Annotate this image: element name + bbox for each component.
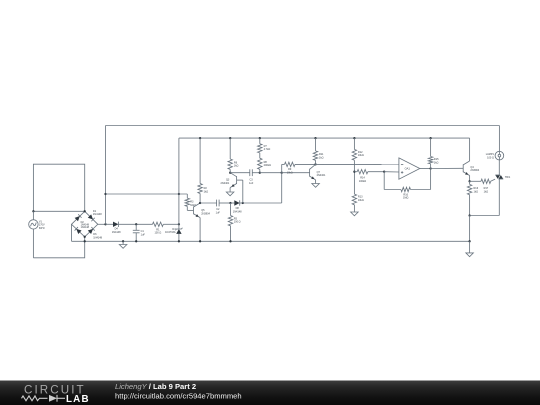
svg-text:100kΩ: 100kΩ [359,180,366,183]
resistor R17 [481,179,491,183]
resistor R16 [467,184,471,194]
node zener tap y=194 [178,193,180,195]
wire: Q3 base drop [242,180,244,203]
svg-text:10kΩ: 10kΩ [358,154,364,157]
resistor R11 [313,151,317,160]
wire: R9 to Q7 collector node [295,163,316,165]
wire: V1 loop rectangle [33,164,84,211]
wire: cross vertical [281,164,283,203]
resistor R7 [258,144,262,153]
wire: R3 to Q5 base [186,206,188,210]
svg-text:200kΩ: 200kΩ [264,164,271,167]
svg-text:TRI1: TRI1 [505,176,511,179]
node bridge bottom vertex [84,236,86,238]
svg-text:1MΩ: 1MΩ [403,197,408,200]
footer bar [0,381,540,405]
node R7 rail2 junction [259,137,261,139]
node D8 cathode / Q3 base drop [242,202,244,204]
svg-text:100 Ω: 100 Ω [155,232,162,235]
diode D8 [231,202,235,204]
capacitor C2 [200,202,217,204]
lamp LAMP1 [495,151,504,160]
svg-text:OA1: OA1 [405,167,411,171]
wire: emitter node to R16 [469,181,471,184]
node Q5 emitter ground [199,240,201,242]
transistor Q7 [309,169,311,177]
svg-text:4.7kΩ: 4.7kΩ [264,148,271,151]
resistor R14 feedback [401,187,411,191]
wire: emitter node to R17 [470,180,481,182]
svg-text:2N4401: 2N4401 [317,174,326,177]
op-amp OA1 [399,158,420,179]
svg-text:1N4148: 1N4148 [233,210,242,213]
node lower right [468,214,470,216]
wire: inverting input line [316,163,399,165]
resistor R12 [352,149,356,160]
wire: D8 line to cross column [243,202,282,204]
node zener bottom [178,240,180,242]
wire: feedback left and up [384,189,401,191]
wire: rail1 right drop to lamp [498,126,500,152]
wire: rail2 to R11 [315,138,317,151]
zener diode D7 [176,229,181,234]
wire: Q4 collector to rail2 [469,138,471,161]
node Q7 collector [314,163,316,165]
wire: plus input stub [384,171,399,173]
wire: zener column [178,138,180,229]
node cross junction [281,172,283,174]
resistor R13 horizontal [354,171,357,173]
node C1 bottom [135,240,137,242]
wire: top rail [106,125,500,127]
ground symbol Q3 emitter [229,188,231,192]
diode D2 (bridge top-left) [75,216,80,221]
resistor R9 [285,162,296,166]
ground symbol R13 [353,205,355,212]
node ground rail end [468,240,470,242]
svg-text:1kΩ: 1kΩ [484,191,489,194]
wire: feedback down [430,169,432,190]
resistor R13 lower [352,194,356,205]
wire: bridge right vertex to DC node [98,223,106,225]
wire: R5 to ground rail [230,226,232,242]
wire: triac bottom loop [498,179,500,216]
svg-text:2N3904: 2N3904 [470,169,479,172]
node R5 ground [229,240,231,242]
wire: triac top to lamp [498,160,500,175]
wire: y=194 tap line [106,193,188,195]
wire: rail2 to R15 [430,138,432,156]
node R2 rail2 junction [199,137,201,139]
wire: Q3 node to C3 [230,172,250,174]
diode D3 (bridge bottom-left) [76,229,81,234]
wire: R16 to lower node [469,195,471,216]
wire: R11 to collector node [315,160,317,164]
svg-text:10kΩ: 10kΩ [358,199,364,202]
svg-text:LAB: LAB [66,394,90,405]
svg-text:1N4148: 1N4148 [93,237,102,240]
diode D4 [113,222,118,227]
svg-text:100 Ω: 100 Ω [487,156,494,159]
svg-text:LichengY / Lab 9 Part 2: LichengY / Lab 9 Part 2 [115,382,196,391]
diode D6 (bridge bottom-right) [88,229,93,234]
svg-text:1N4148: 1N4148 [112,231,121,234]
wire: output to Q4 base [431,167,464,169]
node DC+ corner [104,223,106,225]
logo resistor glyph [22,395,66,402]
svg-text:1N4148: 1N4148 [81,226,90,229]
wire: node row to cross node [260,172,282,174]
node junction at V1 top [32,210,34,212]
svg-text:http://circuitlab.com/cr594e7b: http://circuitlab.com/cr594e7bmmmeh [115,392,242,401]
node bridge top vertex [84,210,86,212]
node tap at y=194 [104,193,106,195]
wire: R15 to output node [430,164,432,169]
node output [429,167,431,169]
svg-text:1uF: 1uF [141,233,146,236]
resistor R8 [258,158,262,169]
svg-text:2N4401: 2N4401 [221,182,230,185]
wire: cross to Q7 base [282,172,310,174]
resistor R15 [428,157,432,164]
wire: rail2 to R6 [229,138,231,159]
svg-text:1N4733A: 1N4733A [165,231,176,234]
node divider tap [353,171,355,173]
triac TRI1 [495,175,500,179]
resistor R3 [185,198,189,206]
node R5 top [229,202,231,204]
ground symbol near C1 [122,240,124,242]
transistor Q4 [462,164,464,172]
node R8 bottom [259,172,261,174]
resistor R2 [198,184,202,194]
triac TRI1 gate lead [491,179,495,181]
wire: Q5 emitter to ground rail [199,218,201,242]
wire: DC rail segments [106,223,114,225]
logo diode glyph [56,395,58,402]
wire: rail2 to R2 [199,138,201,183]
node Q4 emitter [468,180,470,182]
svg-text:1N4148: 1N4148 [93,213,102,216]
wire: bridge left vertex drop [71,224,73,241]
svg-text:10kΩ: 10kΩ [287,171,293,174]
diode bridge diamond outline [72,211,98,237]
node crossing at bridge bottom column [84,240,86,242]
wire: op-amp output [420,168,431,170]
svg-text:60Hz: 60Hz [39,227,46,230]
wire: R6 to Q3 collector node [229,169,231,172]
resistor R1 [153,222,164,226]
svg-text:1kΩ: 1kΩ [474,191,479,194]
capacitor C1 [135,224,137,230]
node R11 rail2 junction [314,137,316,139]
svg-text:1uF: 1uF [216,211,221,214]
voltage source V1 [29,220,38,229]
svg-text:1kΩ: 1kΩ [319,156,324,159]
node Q5 collector [199,202,201,204]
wire: R12 to divider node [353,160,355,194]
resistor R6 [228,159,232,169]
node zener top [178,223,180,225]
wire: node to R5 [230,203,232,216]
node R6 rail2 junction [229,137,231,139]
wire: R2 to collector node [199,194,201,204]
node R15 rail2 junction [429,137,431,139]
node C1 top [135,223,137,225]
node plus input junction [383,171,385,173]
wire: R7 to R8 [259,153,261,158]
svg-text:2N3904: 2N3904 [201,213,210,216]
svg-text:1kΩ: 1kΩ [434,162,439,165]
ground symbol Q7 emitter [315,180,317,184]
wire: R8 to node [259,169,261,172]
transistor Q3 [236,176,238,184]
svg-text:1kΩ: 1kΩ [234,165,239,168]
transistor Q5 [193,207,195,215]
resistor R5 [228,216,232,226]
wire: rail2 to R7 [259,138,261,144]
wire: second rail [179,137,470,139]
node R12 rail2 junction [353,137,355,139]
wire: Q4 emitter to node [469,176,471,182]
wire: R9 left corner [282,163,285,165]
wire: left vertical riser [105,126,107,225]
ground symbol main [469,241,471,253]
wire: ground rail [72,240,470,242]
wire: rail2 to R12 [353,138,355,149]
wire: lower node to ground rail [469,216,471,242]
node Q3 collector [229,172,231,174]
diode D1 (bridge top-right) [88,214,93,219]
svg-text:100 Ω: 100 Ω [234,221,241,224]
capacitor C3 [249,169,251,176]
wire: V1 bottom to bridge bottom vertex [33,237,84,258]
svg-text:1uF: 1uF [249,182,254,185]
svg-text:1kΩ: 1kΩ [204,190,209,193]
